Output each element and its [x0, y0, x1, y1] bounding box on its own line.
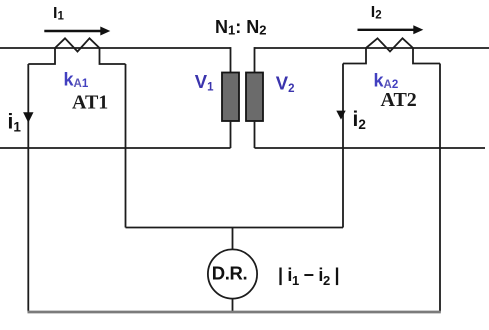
wire bottom-right return from N2 to right edge [255, 147, 486, 149]
wire relay bus connecting CT secondaries [126, 227, 344, 229]
wire top-right from N2 through CT AT2 to right edge [255, 47, 489, 49]
svg-text:AT2: AT2 [381, 89, 417, 111]
wire CT AT2 secondary left step [343, 48, 366, 64]
svg-text:D.R.: D.R. [212, 263, 247, 284]
arrow I1 current direction [44, 27, 110, 36]
arrow i1 (secondary current, downward) [23, 112, 33, 123]
wire transformer N1 top lead [230, 47, 232, 72]
wire transformer N2 bottom lead [254, 121, 256, 148]
wire CT AT2 outer vertical down to bottom rail [439, 64, 441, 312]
relay D.R. circle [208, 249, 257, 298]
wire transformer N1 bottom lead [230, 121, 232, 148]
arrow i2 (secondary current, downward) [336, 111, 345, 120]
svg-text:| i1 − i2 |: | i1 − i2 | [278, 265, 339, 288]
winding N1 (primary, gray block) [222, 73, 239, 122]
wire top-left from left edge through CT AT1 to transformer N1 [0, 47, 231, 49]
arrow I2 current direction [358, 25, 424, 34]
bottom rail wire [28, 311, 441, 314]
wire CT AT1 outer vertical down to bottom rail [27, 64, 29, 312]
wire CT AT2 secondary right step [413, 48, 440, 64]
wire bottom-left return from left edge to N1 [0, 147, 231, 149]
wire transformer N2 top lead [254, 47, 256, 72]
wire CT AT1 inner vertical down to relay bus [125, 64, 127, 228]
wire CT AT2 inner vertical down to relay bus [342, 64, 344, 228]
wire relay branch upper [232, 228, 234, 250]
wire CT AT1 secondary left step [28, 48, 55, 64]
winding N2 (secondary, gray block) [246, 73, 263, 122]
svg-text:AT1: AT1 [72, 92, 108, 114]
svg-text:N1: N2: N1: N2 [215, 17, 266, 38]
wire relay branch lower [232, 299, 234, 312]
CT AT2 primary zigzag winding [366, 38, 413, 51]
CT AT1 primary zigzag winding [55, 38, 100, 51]
wire CT AT1 secondary right step [100, 48, 126, 64]
